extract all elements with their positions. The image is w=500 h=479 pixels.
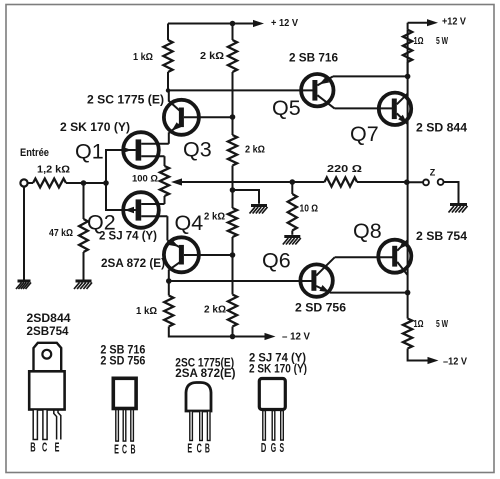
wire input ground drop (23, 187, 25, 280)
svg-text:Q4: Q4 (175, 211, 204, 235)
svg-text:2SA 872 (E): 2SA 872 (E) (101, 258, 165, 270)
resistor 2 kOhm upper (228, 40, 237, 72)
svg-text:2 SD 756: 2 SD 756 (100, 356, 145, 368)
wire 10R bottom (291, 231, 293, 235)
svg-text:1 kΩ: 1 kΩ (136, 306, 157, 317)
svg-text:2SB754: 2SB754 (27, 326, 70, 338)
wire R1k to Q5 base node (167, 72, 169, 90)
svg-text:Q7: Q7 (350, 122, 379, 146)
node ground branch (230, 187, 236, 193)
svg-text:Q8: Q8 (353, 219, 382, 243)
node Q4 collector junction (166, 278, 172, 284)
resistor 1 Ohm lower (403, 319, 412, 349)
arrow -12V right (428, 357, 439, 364)
resistor 47 kOhm (79, 219, 88, 252)
arrow -12V mid (265, 333, 276, 340)
wire 47k top (83, 183, 85, 219)
svg-text:1 kΩ: 1 kΩ (133, 52, 153, 63)
node R1k bottom (166, 88, 170, 92)
node input junction (81, 180, 87, 186)
svg-text:C: C (122, 443, 127, 457)
svg-text:2 SC 1775 (E): 2 SC 1775 (E) (87, 95, 164, 107)
resistor 1,2 kOhm (33, 179, 66, 188)
input terminal Entree (20, 179, 27, 186)
resistor 2 kOhm second (228, 135, 237, 166)
wire Q5 base line (168, 89, 313, 91)
svg-text:C: C (42, 441, 47, 455)
transistor Q5 2SB716 (301, 74, 408, 108)
resistor 1 kOhm lower (164, 296, 173, 327)
arrow +12V right (427, 19, 438, 26)
wire top rail drop R1k (167, 24, 169, 41)
svg-text:1,2 kΩ: 1,2 kΩ (37, 165, 70, 176)
resistor 1 Ohm upper (403, 30, 412, 62)
svg-text:220 Ω: 220 Ω (327, 164, 362, 175)
wire ground branch (233, 190, 260, 204)
svg-text:B: B (205, 442, 210, 456)
package TO92 2SC1775/2SA872 (175, 358, 235, 456)
node output junction (404, 179, 410, 185)
svg-text:E: E (55, 441, 60, 455)
svg-text:2SA 872(E): 2SA 872(E) (175, 368, 235, 380)
svg-text:– 12 V: – 12 V (282, 331, 310, 343)
resistor 10 Ohm (288, 194, 297, 231)
svg-text:Q3: Q3 (183, 138, 212, 162)
wire to Z plug (407, 181, 423, 183)
resistor 2 kOhm third (228, 208, 237, 237)
node Q6 emitter rail (405, 290, 411, 296)
svg-text:1Ω: 1Ω (414, 36, 424, 47)
svg-text:–12 V: –12 V (443, 356, 467, 368)
wire +12V rail left (168, 23, 254, 25)
svg-text:47 kΩ: 47 kΩ (49, 228, 73, 239)
wiper arrow line (181, 181, 325, 183)
transistor Q1 2SK170 (106, 132, 169, 168)
package TO66 2SD844/2SB754 (27, 313, 72, 455)
package 2SJ74/2SK170 (249, 353, 307, 456)
svg-text:1Ω: 1Ω (414, 319, 424, 330)
wire rail corner (407, 23, 409, 30)
svg-text:G: G (271, 441, 276, 455)
node 10R junction (290, 179, 296, 185)
wire 47k bottom (83, 252, 85, 280)
svg-text:Entrée: Entrée (20, 147, 49, 159)
transistor Q4 2SA872 (164, 237, 233, 281)
transistor Q8 2SB754 (378, 240, 411, 275)
svg-text:2 SB 716: 2 SB 716 (289, 53, 338, 65)
svg-text:C: C (197, 442, 202, 456)
svg-text:D: D (261, 441, 266, 455)
svg-text:2 kΩ: 2 kΩ (200, 51, 224, 62)
wire top rail drop R2k (232, 24, 234, 41)
wire 1k lower top (168, 281, 170, 296)
resistor 1 kOhm upper (163, 40, 172, 72)
resistor 220 Ohm (325, 177, 358, 186)
node Q5 emitter rail (405, 74, 411, 80)
svg-text:B: B (30, 441, 35, 455)
transistor Q2 2SJ74 (106, 192, 167, 240)
wire 10R top (291, 182, 293, 194)
svg-text:2 SJ 74 (Y): 2 SJ 74 (Y) (99, 231, 157, 243)
svg-text:100 Ω: 100 Ω (132, 174, 158, 185)
svg-text:2 kΩ: 2 kΩ (245, 145, 265, 156)
node Q3 base junction (230, 114, 236, 120)
wire right rail middle (407, 62, 409, 182)
wire R1.2k to gate node (66, 182, 106, 184)
ground middle (250, 206, 268, 214)
svg-text:2 SD 756: 2 SD 756 (295, 303, 346, 315)
wire right rail lower (407, 182, 409, 319)
svg-text:Q5: Q5 (272, 96, 301, 120)
transistor Q3 2SC1775 (164, 90, 233, 143)
wire -12V rail bottom (169, 327, 266, 337)
wiper arrowhead (171, 178, 182, 185)
ground 47k (74, 281, 92, 289)
transistor Q7 2SD844 (379, 93, 411, 125)
svg-text:2 SK 170 (Y): 2 SK 170 (Y) (60, 122, 130, 134)
svg-text:E: E (187, 442, 192, 456)
svg-text:2 SD 844: 2 SD 844 (416, 123, 468, 135)
wire -12V rail right (408, 349, 429, 361)
wire to Q1 gate (106, 150, 136, 183)
resistor 2 kOhm bottom (228, 295, 237, 327)
wire mid column upper (232, 72, 234, 135)
svg-text:10 Ω: 10 Ω (300, 204, 319, 215)
node bottom rail (230, 334, 236, 340)
wire mid column to rail (232, 327, 234, 337)
wire mid column 3 (232, 237, 234, 295)
wire to Q2 gate (106, 183, 136, 210)
package 2SB716/2SD756 (100, 345, 145, 457)
node Q4 base junction (230, 252, 236, 258)
arrow +12V left (253, 20, 264, 27)
svg-text:5 W: 5 W (436, 319, 448, 330)
wire Z to ground (444, 182, 459, 204)
svg-text:Q1: Q1 (75, 140, 104, 164)
svg-text:2 SB 754: 2 SB 754 (416, 231, 468, 243)
node gate split (103, 180, 109, 186)
svg-text:2SD844: 2SD844 (27, 313, 72, 325)
wire Q6 base line (169, 280, 312, 282)
svg-text:S: S (280, 441, 285, 455)
svg-text:B: B (131, 443, 136, 457)
svg-text:2 SK 170 (Y): 2 SK 170 (Y) (249, 364, 307, 376)
svg-text:5 W: 5 W (436, 36, 448, 47)
node top rail middle (230, 21, 236, 27)
ground input (16, 281, 31, 289)
ground 10R (283, 237, 301, 245)
svg-text:+ 12 V: + 12 V (271, 17, 298, 29)
ground Z (449, 205, 468, 213)
svg-text:Q6: Q6 (262, 249, 291, 273)
transistor Q6 2SD756 (300, 257, 407, 297)
wire 100R bottom to Q2 source (164, 196, 166, 204)
svg-text:+12 V: +12 V (442, 16, 466, 28)
wire input to R 1.2k (28, 182, 33, 184)
resistor 100 Ohm (160, 166, 169, 196)
terminal Z right (438, 179, 444, 185)
wire 220R to rail (357, 181, 407, 183)
svg-text:2 kΩ: 2 kΩ (204, 305, 226, 316)
wire +12V rail right top (408, 23, 429, 77)
svg-text:E: E (114, 443, 119, 457)
svg-text:2 kΩ: 2 kΩ (204, 212, 225, 223)
wire mid column 2 (232, 166, 234, 209)
terminal Z left (423, 180, 429, 186)
svg-text:Z: Z (430, 168, 436, 178)
